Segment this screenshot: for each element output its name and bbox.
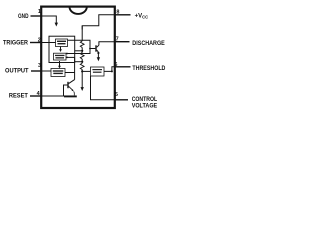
ground arrow (Q1 emitter)	[97, 57, 100, 61]
arrow B to C	[58, 66, 61, 69]
svg-text:5: 5	[115, 92, 118, 98]
pin 4 lead (RESET)	[30, 95, 42, 97]
ground arrow (divider bottom)	[81, 87, 84, 91]
junction dot	[81, 50, 83, 52]
pin 8 lead (+Vcc)	[115, 14, 131, 16]
junction dot pin6 wire	[111, 70, 113, 72]
wire pin3 to output stage	[42, 70, 51, 72]
svg-text:VOLTAGE: VOLTAGE	[132, 104, 158, 110]
svg-text:TRIGGER: TRIGGER	[3, 40, 29, 46]
wire divider top	[81, 26, 83, 41]
Q2 emitter with arrow	[69, 86, 73, 90]
tiny block text C	[53, 70, 64, 71]
svg-text:8: 8	[116, 10, 119, 16]
svg-text:OUTPUT: OUTPUT	[5, 69, 29, 75]
IC body outline U1	[41, 7, 115, 108]
wire Q1 base stub	[90, 48, 95, 50]
junction dot Q1 base	[89, 48, 91, 50]
node tap to comparator D	[82, 70, 90, 72]
svg-text:1: 1	[38, 9, 41, 15]
wire C to Q2 collector	[65, 57, 75, 79]
wire R3 to ground arrow	[81, 70, 83, 88]
wire FF output to Q2 collector	[66, 56, 75, 58]
Q1 collector	[97, 45, 99, 47]
wire R1-R2	[81, 48, 83, 53]
node tap 2/3Vcc to comparator group	[75, 50, 83, 52]
svg-text:RESET: RESET	[9, 94, 28, 100]
output stage block C	[51, 69, 65, 77]
junction dot Q1 emitter	[97, 52, 99, 54]
junction dot	[81, 70, 83, 72]
wire B to C	[59, 61, 61, 66]
svg-text:2: 2	[38, 38, 41, 44]
arrow A to B	[59, 49, 62, 52]
svg-text:7: 7	[116, 37, 119, 43]
resistor R2 (divider middle)	[80, 53, 84, 60]
svg-text:CONTROL: CONTROL	[132, 97, 158, 103]
svg-text:DISCHARGE: DISCHARGE	[132, 41, 165, 47]
resistor R3 (divider bottom)	[80, 63, 84, 69]
svg-text:6: 6	[114, 62, 117, 68]
wire pin1 to internal ground	[42, 16, 56, 23]
transistor Q2 (reset) base bar	[67, 82, 69, 88]
wire R2-R3	[81, 59, 83, 63]
pin 7 lead (DISCHARGE)	[115, 41, 130, 43]
tiny block text B	[55, 55, 65, 56]
comparator block A	[56, 39, 68, 47]
wire emitter to ground bar	[73, 91, 76, 95]
node tap 1/3Vcc to comparator group	[75, 61, 83, 63]
svg-text:GND: GND	[18, 14, 29, 20]
svg-text:THRESHOLD: THRESHOLD	[132, 66, 166, 72]
svg-text:3: 3	[38, 63, 41, 69]
pin 3 lead (OUTPUT)	[31, 70, 42, 72]
wire pin4 to reset transistor base	[42, 85, 67, 96]
wire pin7 to Q1 collector	[99, 42, 115, 46]
tiny block text A	[53, 41, 102, 75]
wire pin5 up to comparator D	[91, 76, 115, 100]
ground bar under Q2	[64, 95, 77, 97]
wire comparator A output to Q1 base net	[66, 40, 90, 53]
wire pin2 to comparator A	[42, 42, 56, 44]
comparator block D (threshold/control)	[91, 67, 105, 76]
pin 6 lead (THRESHOLD)	[115, 66, 131, 68]
wire Q1 emitter down	[97, 53, 99, 58]
wire Vcc rail to divider top	[82, 15, 114, 30]
junction dot	[81, 61, 83, 63]
pin 5 lead (CONTROL VOLTAGE)	[115, 99, 129, 101]
wire A to B	[60, 47, 62, 50]
Q2 collector	[69, 80, 75, 84]
pin 1 lead (GND)	[31, 15, 43, 17]
Q1 emitter with arrow	[97, 50, 99, 52]
tiny block text D	[92, 69, 102, 70]
flip-flop block B	[54, 53, 67, 60]
junction dot FF outputs	[66, 53, 68, 55]
resistor R1 (divider top)	[80, 41, 84, 48]
wire pin6 to comparator D	[104, 67, 115, 72]
transistor Q1 (discharge) base bar	[95, 45, 97, 51]
svg-text:+VCC: +VCC	[135, 14, 149, 20]
notch (pin-1 index semicircle)	[70, 7, 87, 14]
pin 2 lead (TRIGGER)	[30, 42, 42, 44]
ground arrow (pin1 internal)	[55, 23, 58, 27]
comparator group box	[49, 36, 75, 62]
